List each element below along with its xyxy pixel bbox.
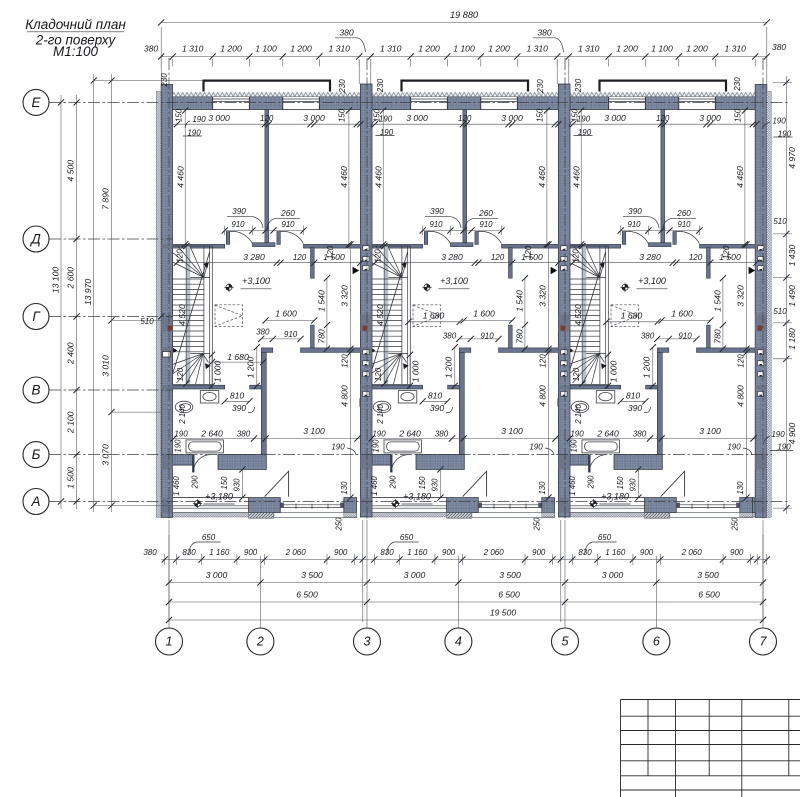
svg-text:910: 910	[678, 332, 692, 341]
svg-text:Д: Д	[29, 232, 41, 247]
svg-text:2 060: 2 060	[681, 548, 703, 557]
axis line 4	[457, 556, 459, 628]
svg-text:120: 120	[176, 367, 185, 381]
svg-text:930: 930	[629, 478, 638, 492]
unit 1 mid partition wall	[265, 110, 269, 243]
unit 2 dim line 930	[439, 469, 441, 497]
svg-text:19 880: 19 880	[450, 10, 479, 20]
unit 2 wall vent niche	[360, 399, 370, 407]
svg-text:120: 120	[656, 114, 670, 123]
unit 1 level mark +3,100	[224, 283, 233, 292]
svg-text:6 500: 6 500	[698, 590, 720, 600]
unit 1 stair walk line with arrows	[204, 265, 207, 277]
unit 2 room dim 4460 left	[382, 111, 384, 245]
svg-text:3 000: 3 000	[206, 570, 228, 580]
svg-text:120: 120	[260, 114, 274, 123]
drawing title	[25, 17, 126, 59]
svg-text:1 310: 1 310	[526, 44, 548, 54]
unit 1 bathroom door leaf and swing	[192, 455, 194, 473]
right exterior wall masonry	[755, 85, 767, 518]
svg-text:+3,100: +3,100	[440, 276, 468, 286]
svg-text:150: 150	[418, 476, 427, 490]
svg-text:230: 230	[160, 73, 169, 88]
unit 2 dim 1680	[409, 321, 460, 323]
svg-text:1 200: 1 200	[488, 44, 510, 54]
svg-text:1 160: 1 160	[605, 548, 626, 557]
vent flue niches in party and gable walls	[363, 246, 369, 251]
unit 1 bathroom north wall	[173, 385, 213, 389]
svg-text:190: 190	[174, 439, 183, 453]
axis line 3	[366, 58, 368, 520]
unit 1 section arrow	[353, 267, 360, 274]
svg-text:510: 510	[773, 307, 787, 316]
unit 3 dim 1680	[607, 321, 658, 323]
unit 2 hall dims 3280/120/1500	[375, 262, 559, 264]
svg-text:1 100: 1 100	[255, 44, 277, 54]
svg-text:3 000: 3 000	[602, 570, 624, 580]
unit 1 toilet	[175, 401, 193, 413]
unit 1 dim 810/390 bath door	[225, 400, 250, 402]
svg-text:650: 650	[598, 533, 612, 542]
svg-text:2 600: 2 600	[66, 267, 76, 290]
svg-text:120: 120	[491, 253, 505, 262]
svg-text:4 460: 4 460	[373, 166, 383, 188]
left chain 13100	[60, 95, 62, 509]
svg-text:4 460: 4 460	[175, 166, 185, 188]
svg-text:1 500: 1 500	[66, 467, 76, 489]
unit 1 bottom window	[173, 498, 249, 513]
svg-text:7 890: 7 890	[101, 188, 111, 210]
svg-text:А: А	[30, 494, 40, 509]
svg-text:510: 510	[773, 217, 787, 226]
svg-text:150: 150	[616, 476, 625, 490]
top dimension chain 380/1310/1200/1100/1200/1310	[161, 56, 767, 58]
svg-text:+3,180: +3,180	[601, 491, 629, 501]
top wall insulation strip	[161, 92, 767, 97]
unit 1 wall vent niche	[162, 399, 172, 407]
svg-text:2 140: 2 140	[574, 404, 583, 425]
svg-text:190: 190	[372, 439, 381, 453]
unit 3 room dim 4460 right	[744, 111, 746, 245]
unit 2 partition wall axis D	[371, 244, 423, 248]
svg-text:130: 130	[538, 481, 547, 495]
svg-text:Кладочний план: Кладочний план	[25, 17, 126, 32]
svg-text:230: 230	[338, 79, 347, 94]
unit 1 closet door leaf left	[226, 232, 229, 245]
unit 2 window W2 top	[481, 97, 518, 110]
unit 2 level mark +3,180	[391, 499, 400, 508]
unit 3 window W2 top	[679, 97, 716, 110]
svg-text:3 320: 3 320	[736, 285, 746, 307]
svg-text:3 000: 3 000	[604, 113, 626, 123]
svg-text:900: 900	[244, 548, 258, 557]
unit 2 bottom wall pier right	[542, 498, 555, 513]
svg-text:290: 290	[389, 475, 398, 490]
svg-text:650: 650	[202, 533, 216, 542]
bottom row 3000/3500	[169, 582, 763, 584]
svg-text:1 200: 1 200	[246, 357, 256, 379]
unit 3 niche dims 1540/780	[722, 278, 724, 349]
axis line D	[49, 238, 173, 240]
svg-text:390: 390	[430, 207, 444, 216]
svg-text:3 100: 3 100	[303, 426, 325, 436]
svg-text:900: 900	[532, 548, 546, 557]
svg-text:390: 390	[232, 207, 246, 216]
svg-text:810: 810	[626, 391, 641, 401]
svg-text:1 460: 1 460	[568, 476, 577, 496]
unit 2 top interior dims 3000/120/3000	[371, 123, 559, 125]
svg-text:150: 150	[338, 108, 347, 122]
unit 2 staircase	[383, 246, 388, 384]
svg-text:6 500: 6 500	[498, 590, 520, 600]
svg-text:260: 260	[280, 209, 295, 218]
left wall niche	[163, 352, 171, 358]
svg-text:120: 120	[572, 249, 581, 263]
svg-text:120: 120	[539, 354, 548, 368]
svg-text:930: 930	[233, 478, 242, 492]
svg-text:380: 380	[237, 430, 251, 439]
unit 2 entrance steps	[447, 513, 472, 519]
unit 2 top wall pier centre	[447, 97, 481, 110]
svg-text:190: 190	[379, 115, 393, 124]
unit 1 room dim 4460 right	[348, 111, 350, 245]
svg-text:3 000: 3 000	[303, 113, 325, 123]
unit 3 dim 810/390 bath door	[621, 400, 646, 402]
unit 1 bathtub	[186, 440, 223, 453]
unit 1 dim 1600	[266, 319, 315, 321]
axis line 6	[655, 556, 657, 628]
svg-text:1 200: 1 200	[444, 357, 454, 379]
bottom chain row 830/1160/900/2060/900	[161, 559, 767, 561]
svg-text:120: 120	[326, 245, 335, 259]
svg-text:1 310: 1 310	[724, 44, 746, 54]
svg-text:150: 150	[734, 108, 743, 122]
unit 1 level mark +3,180	[193, 499, 202, 508]
unit 2 bathtub	[384, 440, 421, 453]
axis line V	[49, 389, 173, 391]
unit 3 stair break line	[569, 252, 606, 375]
svg-text:190: 190	[570, 439, 579, 453]
unit 3 dims 380/910 wc door	[657, 338, 696, 340]
axis line 5	[564, 58, 566, 520]
svg-text:190: 190	[577, 115, 591, 124]
svg-text:380: 380	[641, 332, 655, 341]
svg-text:190: 190	[372, 430, 386, 439]
svg-text:1 540: 1 540	[317, 290, 327, 312]
unit 1 bottom dims 190/2640/380/3100	[174, 438, 361, 440]
unit 1 top wall pier centre	[249, 97, 282, 110]
svg-text:+3,100: +3,100	[638, 276, 666, 286]
svg-text:5: 5	[562, 635, 569, 649]
svg-text:190: 190	[192, 115, 206, 124]
unit 3 partition wall axis D	[569, 244, 621, 248]
unit 1 room dim 4460 left	[184, 111, 186, 245]
svg-text:3 070: 3 070	[101, 444, 111, 466]
unit 1 top interior dims 3000/120/3000	[173, 123, 361, 125]
svg-text:4 460: 4 460	[537, 166, 547, 188]
unit 2 closet door leaf right	[475, 232, 478, 245]
svg-text:7: 7	[760, 635, 768, 649]
svg-text:910: 910	[677, 220, 691, 229]
unit 1 window W1 top	[213, 97, 250, 110]
unit 1 floor opening dashed	[215, 305, 243, 327]
svg-text:380: 380	[256, 328, 270, 337]
svg-text:780: 780	[713, 329, 723, 344]
unit 1 dims 380/910 wc door	[261, 338, 300, 340]
svg-text:6 500: 6 500	[296, 590, 318, 600]
unit 3 level mark +3,100	[620, 283, 629, 292]
unit 3 dim 1000	[607, 355, 609, 386]
unit 2 bottom dims 190/2640/380/3100	[372, 438, 559, 440]
unit 1 dim 3320/120/4800	[350, 244, 352, 497]
unit 1 stair dim 4520	[185, 246, 187, 384]
unit 3 entrance steps	[645, 513, 670, 519]
unit 1 entrance steps	[249, 513, 274, 519]
svg-text:4 460: 4 460	[571, 166, 581, 188]
unit 1 hall dims 3280/120/1500	[177, 262, 361, 264]
unit 3 closet door leaf right	[673, 232, 676, 245]
unit 1 top wall pier right	[319, 97, 360, 110]
svg-text:1 100: 1 100	[453, 44, 475, 54]
svg-text:230: 230	[574, 78, 583, 93]
unit 2 bathroom door leaf and swing	[390, 455, 392, 473]
svg-text:1 600: 1 600	[275, 309, 297, 319]
svg-text:1 200: 1 200	[290, 44, 312, 54]
unit 2 top wall pier left	[371, 97, 411, 110]
unit 2 hall south wall	[459, 348, 471, 353]
svg-text:120: 120	[524, 245, 533, 259]
svg-text:910: 910	[284, 330, 298, 339]
unit 1 dim line 930	[241, 469, 243, 497]
svg-text:380: 380	[537, 28, 552, 38]
svg-text:510: 510	[140, 317, 154, 326]
party wall axis 3	[360, 84, 372, 517]
unit 1 dim 1680	[212, 361, 263, 363]
svg-text:900: 900	[640, 548, 654, 557]
unit 2 toilet	[373, 401, 391, 413]
unit 1 partition wall axis D	[173, 244, 225, 248]
bottom row 6500	[169, 601, 763, 603]
unit 3 patio door opening	[676, 504, 740, 506]
svg-text:3 500: 3 500	[499, 570, 521, 580]
unit 2 level mark +3,100	[422, 283, 431, 292]
svg-text:290: 290	[587, 475, 596, 490]
svg-text:+3,180: +3,180	[205, 491, 233, 501]
svg-text:1 000: 1 000	[411, 361, 421, 383]
svg-text:1 200: 1 200	[686, 44, 708, 54]
svg-text:4 800: 4 800	[736, 385, 746, 407]
svg-text:650: 650	[400, 533, 414, 542]
unit 3 small wall arrow marker	[569, 348, 574, 353]
svg-text:4 500: 4 500	[66, 160, 76, 182]
svg-text:1 680: 1 680	[621, 310, 643, 320]
unit 2 closet dims 390/910 260/910	[423, 230, 502, 232]
svg-text:1 200: 1 200	[220, 44, 242, 54]
unit 2 bottom wall pier	[447, 498, 479, 513]
svg-text:390: 390	[232, 403, 247, 413]
unit 2 bottom window	[371, 498, 447, 513]
svg-text:Е: Е	[31, 95, 41, 110]
unit 2 room dim 4460 right	[546, 111, 548, 245]
svg-text:150: 150	[220, 476, 229, 490]
axis line 1	[168, 58, 170, 520]
unit 1 staircase	[185, 246, 190, 384]
svg-text:1 310: 1 310	[182, 44, 204, 54]
unit 1 patio door leaf open	[265, 471, 289, 496]
unit 2 window W1 top	[411, 97, 448, 110]
svg-text:930: 930	[431, 478, 440, 492]
unit 2 dim 1000	[409, 355, 411, 386]
svg-text:260: 260	[478, 209, 493, 218]
svg-text:2: 2	[256, 635, 264, 649]
left chain 7890/3010/3070	[111, 74, 113, 512]
svg-text:Б: Б	[32, 447, 41, 462]
svg-text:4 800: 4 800	[340, 385, 350, 407]
svg-text:3 000: 3 000	[501, 113, 523, 123]
svg-text:190: 190	[331, 443, 345, 452]
svg-text:3 000: 3 000	[208, 113, 230, 123]
svg-text:1 600: 1 600	[473, 309, 495, 319]
axis line G	[49, 316, 173, 318]
unit 1 bottom wall pier right	[344, 498, 357, 513]
unit 3 bathroom north wall	[569, 385, 609, 389]
unit 1 stair break line	[173, 252, 210, 375]
axis line A	[49, 501, 788, 503]
unit 3 wall vent niche	[558, 399, 568, 407]
unit 1 small wall arrow marker	[173, 348, 178, 353]
svg-text:120: 120	[374, 367, 383, 381]
unit 3 bathroom niche wall	[707, 248, 711, 279]
unit 1 wash basin	[200, 391, 219, 403]
unit 3 level mark +3,180	[589, 499, 598, 508]
svg-text:1 310: 1 310	[328, 44, 350, 54]
unit 2 stair winders bottom	[371, 354, 402, 365]
unit 3 top interior dims 3000/120/3000	[569, 123, 757, 125]
svg-text:3 280: 3 280	[243, 252, 265, 262]
unit 2 bathroom north wall	[371, 385, 411, 389]
svg-text:120: 120	[737, 354, 746, 368]
svg-text:6: 6	[653, 635, 660, 649]
svg-text:1 000: 1 000	[213, 361, 223, 383]
unit 2 wall axis B with door	[371, 455, 391, 466]
axis bubbles numbers	[156, 628, 183, 655]
svg-text:120: 120	[341, 354, 350, 368]
svg-text:810: 810	[230, 391, 245, 401]
axis line 7	[762, 58, 764, 520]
svg-text:4: 4	[455, 635, 462, 649]
unit 2 stair break line	[371, 252, 408, 375]
unit 2 floor opening dashed	[413, 305, 441, 327]
svg-text:3 280: 3 280	[639, 252, 661, 262]
svg-text:250: 250	[335, 517, 344, 532]
svg-text:3 500: 3 500	[301, 570, 323, 580]
svg-text:900: 900	[442, 548, 456, 557]
svg-text:3 010: 3 010	[101, 355, 111, 377]
unit 3 floor opening dashed	[611, 305, 639, 327]
party wall axis 5	[558, 84, 570, 517]
svg-text:130: 130	[736, 481, 745, 495]
right witness lines	[773, 82, 792, 84]
svg-text:3 000: 3 000	[404, 570, 426, 580]
unit 2 dim 1200	[454, 347, 456, 386]
right exterior wall insulation	[767, 92, 772, 518]
unit 3 bathtub	[582, 440, 619, 453]
unit 3 stair walk line with arrows	[600, 265, 603, 277]
svg-text:13 100: 13 100	[51, 267, 61, 294]
svg-text:380: 380	[443, 332, 457, 341]
svg-text:2 060: 2 060	[285, 548, 307, 557]
unit 2 mid partition wall	[463, 110, 467, 243]
unit 3 top wall pier left	[569, 97, 609, 110]
unit 3 staircase	[581, 246, 586, 384]
svg-text:1 310: 1 310	[380, 44, 402, 54]
bottom witness lines	[168, 535, 170, 622]
svg-text:19 500: 19 500	[490, 608, 517, 618]
svg-text:120: 120	[458, 114, 472, 123]
svg-text:1 180: 1 180	[787, 328, 797, 350]
svg-text:1 200: 1 200	[642, 357, 652, 379]
svg-text:260: 260	[676, 209, 691, 218]
unit 2 stair winders top	[371, 253, 402, 278]
title block table	[621, 700, 800, 797]
unit 1 dim 1200	[256, 347, 258, 386]
svg-text:130: 130	[340, 481, 349, 495]
svg-text:910: 910	[480, 332, 494, 341]
svg-text:380: 380	[435, 430, 449, 439]
axis line E	[49, 101, 790, 103]
left witness lines	[93, 80, 203, 82]
unit 1 top wall pier left	[173, 97, 213, 110]
unit 3 bottom wall pier	[645, 498, 677, 513]
svg-text:1 680: 1 680	[423, 310, 445, 320]
unit 3 toilet	[571, 401, 589, 413]
unit 3 closet door leaf left	[622, 232, 625, 245]
svg-text:3 320: 3 320	[340, 285, 350, 307]
svg-text:910: 910	[231, 220, 245, 229]
unit 2 dims 380/910 wc door	[459, 338, 498, 340]
svg-text:2 140: 2 140	[376, 404, 385, 425]
unit 2 stair dim 4520	[383, 246, 385, 384]
svg-text:4 520: 4 520	[573, 304, 583, 326]
svg-text:2 100: 2 100	[66, 411, 76, 434]
svg-text:120: 120	[572, 367, 581, 381]
svg-text:810: 810	[428, 391, 443, 401]
wall insulation pads	[161, 244, 172, 248]
svg-text:390: 390	[628, 207, 642, 216]
svg-text:2 640: 2 640	[200, 429, 223, 439]
unit 1 hall south wall	[261, 348, 273, 353]
svg-text:3 100: 3 100	[501, 426, 523, 436]
svg-text:190: 190	[174, 430, 188, 439]
svg-text:1 490: 1 490	[787, 285, 797, 307]
svg-text:2 640: 2 640	[398, 429, 421, 439]
svg-text:1 100: 1 100	[651, 44, 673, 54]
svg-text:3 320: 3 320	[538, 285, 548, 307]
unit 2 section arrow	[551, 267, 558, 274]
unit 3 dim 1200	[652, 347, 654, 386]
unit 2 stair walk line with arrows	[402, 265, 405, 277]
unit 3 top wall pier right	[715, 97, 756, 110]
svg-text:1 460: 1 460	[370, 476, 379, 496]
svg-text:120: 120	[176, 249, 185, 263]
svg-text:2 640: 2 640	[596, 429, 619, 439]
svg-text:13 970: 13 970	[83, 279, 93, 306]
svg-text:250: 250	[731, 517, 740, 532]
axis line B	[49, 454, 772, 456]
svg-text:3 000: 3 000	[406, 113, 428, 123]
svg-text:1 200: 1 200	[616, 44, 638, 54]
svg-text:2 400: 2 400	[66, 342, 76, 365]
